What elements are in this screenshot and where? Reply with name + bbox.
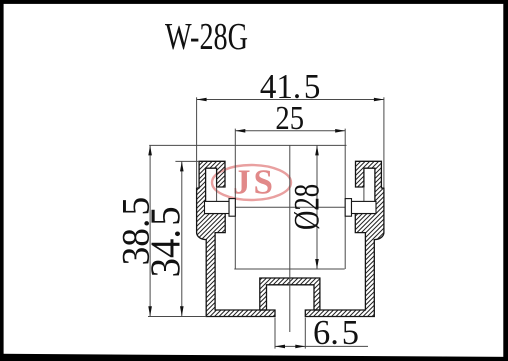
svg-text:W-28G: W-28G [165,16,248,58]
svg-text:34. 5: 34. 5 [144,206,190,277]
svg-text:Ø28: Ø28 [287,184,327,230]
svg-text:6. 5: 6. 5 [313,313,359,352]
svg-text:25: 25 [275,100,304,137]
svg-text:JS: JS [233,163,276,202]
